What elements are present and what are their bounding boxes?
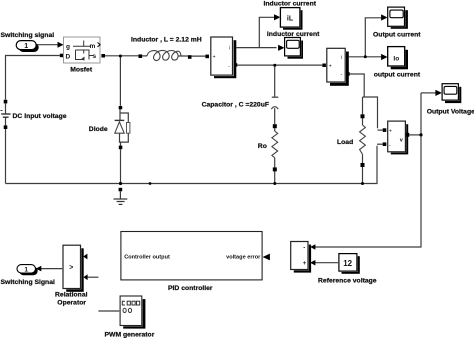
svg-text:Ro: Ro [258,143,267,150]
svg-text:Capacitor , C =220uF: Capacitor , C =220uF [202,101,269,108]
svg-text:Switching signal: Switching signal [1,32,55,39]
svg-text:Output Voltage: Output Voltage [427,108,474,115]
svg-text:Controller output: Controller output [124,255,170,261]
svg-text:+: + [389,128,392,134]
svg-text:Diode: Diode [89,126,108,133]
svg-text:Operator: Operator [57,299,86,306]
svg-text:1: 1 [24,267,28,274]
svg-text:iL: iL [287,15,294,22]
svg-text:Inductor , L = 2.12 mH: Inductor , L = 2.12 mH [131,37,202,44]
svg-text:i: i [341,55,342,61]
svg-text:inductor current: inductor current [267,31,320,38]
svg-text:i: i [229,46,230,52]
svg-text:1: 1 [24,43,28,50]
svg-text:Io: Io [393,56,399,63]
svg-text:m: m [90,43,96,50]
svg-text:Reference voltage: Reference voltage [318,277,377,284]
svg-text:Mosfet: Mosfet [70,66,93,73]
svg-text:+: + [329,63,332,69]
svg-text:>: > [69,265,73,272]
svg-text:PID controller: PID controller [168,285,213,292]
svg-text:g: g [66,43,70,50]
svg-text:-: - [303,245,305,251]
svg-text:DC Input voltage: DC Input voltage [13,113,67,120]
svg-text:output current: output current [374,72,421,79]
svg-text:voltage error: voltage error [226,255,261,261]
svg-text:12: 12 [343,259,352,268]
svg-text:+: + [303,261,307,267]
svg-text:Relational: Relational [55,291,88,298]
svg-text:D: D [66,53,71,60]
svg-text:s: s [93,53,97,60]
svg-text:Output current: Output current [373,32,421,39]
svg-text:Switching Signal: Switching Signal [1,279,55,286]
svg-text:Load: Load [337,139,353,146]
svg-text:+: + [213,54,216,60]
svg-text:Inductor current: Inductor current [264,0,317,7]
svg-text:PWM generator: PWM generator [105,332,155,338]
